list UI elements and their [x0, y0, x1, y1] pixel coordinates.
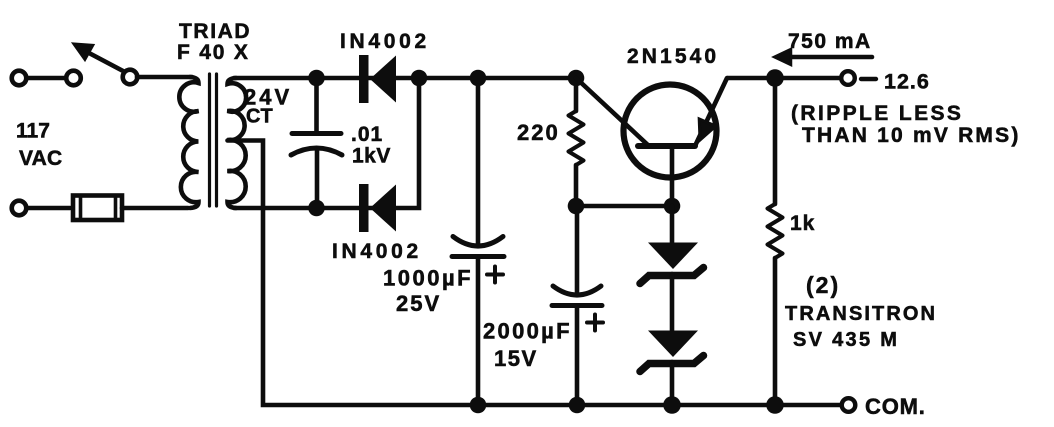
svg-text:220: 220	[517, 120, 560, 145]
svg-text:117: 117	[16, 120, 50, 143]
node dot base rail at Q1 base	[664, 198, 681, 215]
label TRIAD F40X	[177, 20, 251, 64]
node dot top rail at R1	[568, 70, 585, 87]
label 1000uF 25V	[383, 266, 473, 317]
label .01 1kV	[351, 123, 391, 168]
switch S1	[66, 44, 137, 85]
svg-text:CT: CT	[246, 106, 273, 128]
resistor R2 1k	[768, 86, 783, 403]
svg-text:12.6: 12.6	[884, 70, 930, 94]
node dot common rail at zeners	[663, 396, 681, 414]
label 1k	[790, 212, 815, 235]
label 2N1540	[627, 45, 719, 68]
label 750 mA	[788, 30, 872, 53]
svg-text:F 40 X: F 40 X	[177, 41, 250, 64]
label 24V CT	[244, 85, 292, 128]
node dot top rail at C2	[470, 70, 487, 87]
label -12.6	[861, 70, 930, 94]
svg-text:THAN 10 mV RMS): THAN 10 mV RMS)	[802, 124, 1021, 147]
svg-text:.01: .01	[351, 123, 383, 146]
svg-text:TRANSITRON: TRANSITRON	[785, 303, 937, 325]
node dot output rail	[766, 69, 784, 87]
svg-text:1k: 1k	[790, 212, 815, 235]
label (2) TRANSITRON SV435M	[785, 272, 937, 351]
svg-text:COM.: COM.	[865, 394, 926, 419]
zener CR2 lead to common	[670, 362, 675, 403]
svg-text:IN4002: IN4002	[332, 240, 422, 263]
wire center tap to common rail	[228, 141, 842, 406]
transformer T1 core	[210, 74, 217, 206]
svg-text:TRIAD: TRIAD	[179, 20, 251, 43]
svg-text:2000µF: 2000µF	[483, 319, 572, 344]
diode D1 1N4002 top	[359, 55, 396, 103]
capacitor C1 plates	[291, 134, 342, 207]
svg-text:1kV: 1kV	[352, 145, 391, 168]
transistor Q1 base bar	[638, 143, 695, 149]
svg-text:2N1540: 2N1540	[627, 45, 719, 68]
label 220	[517, 120, 560, 145]
capacitor C2 1000uF 25V	[452, 86, 504, 403]
terminal -12.6 output	[841, 71, 855, 85]
label 1N4002 bottom	[332, 240, 422, 263]
node dot base rail at R1/C3	[568, 198, 585, 215]
label ripple note	[791, 102, 1021, 147]
label 1N4002 top	[340, 30, 430, 53]
svg-text:VAC: VAC	[19, 147, 62, 170]
wire base rail	[576, 204, 672, 209]
svg-text:IN4002: IN4002	[340, 30, 430, 53]
node dot lower rail at C1	[308, 200, 325, 217]
node dot common rail at R2	[766, 396, 784, 414]
diode D2 1N4002 bottom	[359, 184, 396, 232]
wire switch to transformer	[137, 75, 192, 80]
terminal 117VAC bottom	[12, 201, 27, 216]
terminal COM	[842, 398, 856, 412]
svg-text:1000µF: 1000µF	[383, 266, 473, 291]
wire top rail transistor to output	[728, 76, 841, 81]
label 2000uF 15V	[483, 319, 572, 372]
wire	[27, 206, 70, 211]
wire lower rectifier rail	[234, 78, 419, 208]
node dot common rail at C2	[470, 397, 487, 414]
zener CR1 lead	[670, 206, 675, 243]
svg-text:750 mA: 750 mA	[788, 30, 872, 53]
svg-text:SV 435 M: SV 435 M	[793, 329, 899, 351]
terminal 117VAC top	[12, 71, 27, 86]
node dot top rail at C1	[308, 70, 325, 87]
svg-text:(2): (2)	[806, 272, 840, 298]
node dot top rail at D-join	[411, 70, 428, 87]
transistor Q1 emitter lead with arrow	[695, 78, 727, 146]
label 117 VAC	[16, 120, 62, 171]
svg-text:15V: 15V	[494, 346, 538, 371]
zener CR2	[640, 331, 704, 372]
wire	[27, 76, 66, 81]
node dot common rail at C3	[569, 397, 586, 414]
transformer T1 secondary winding	[228, 78, 247, 208]
transistor Q1 2N1540 circle	[624, 85, 717, 178]
capacitor C1 .01 1kV lead	[314, 80, 319, 131]
zener link wire	[670, 274, 675, 331]
arrow 750 mA	[774, 49, 872, 65]
transistor Q1 collector lead	[576, 78, 649, 146]
wire fuse to transformer	[122, 206, 188, 211]
transistor Q1 base lead	[670, 146, 675, 200]
label COM.	[865, 394, 926, 419]
transformer T1 primary winding	[179, 77, 198, 208]
wire top rail secondary to transistor	[234, 76, 576, 81]
fuse F1	[73, 196, 122, 221]
svg-text:(RIPPLE LESS: (RIPPLE LESS	[791, 102, 963, 125]
zener CR1	[640, 243, 704, 284]
capacitor C3 2000uF 15V	[552, 212, 603, 403]
svg-text:25V: 25V	[396, 291, 441, 316]
resistor R1 220	[569, 86, 584, 200]
